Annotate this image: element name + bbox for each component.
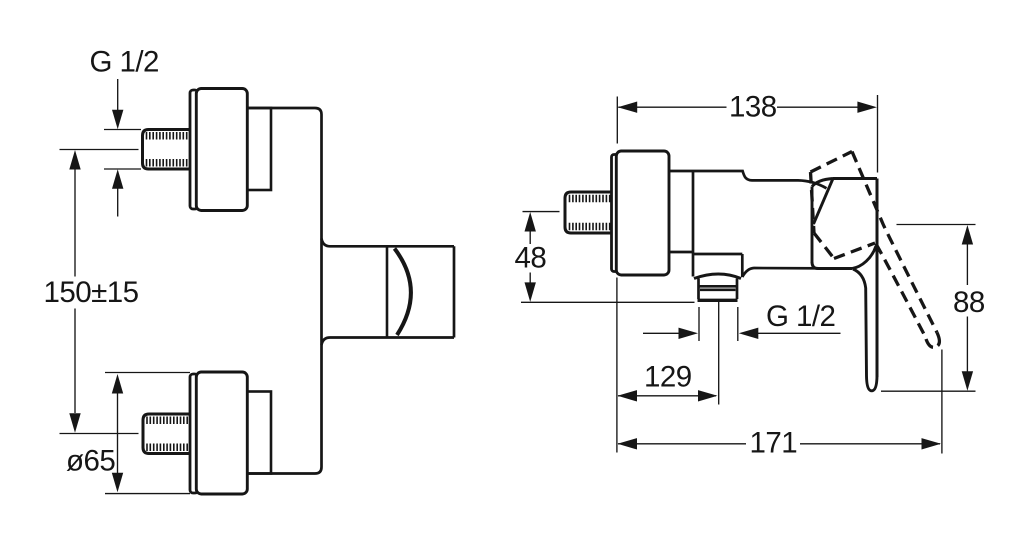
body section divider	[692, 171, 695, 254]
dimension 88	[897, 224, 976, 226]
dashed grip top edge	[811, 152, 853, 173]
svg-text:171: 171	[750, 426, 798, 459]
handle cap left edge	[811, 187, 814, 264]
lever left edge	[853, 269, 867, 376]
valve body top edge	[669, 171, 827, 188]
spout ring line	[386, 246, 389, 337]
dashed lever tip	[926, 333, 939, 348]
body plate bottom (left view)	[246, 392, 271, 474]
leader arrow down to thread top	[117, 79, 119, 110]
handle cap top edge	[833, 177, 877, 180]
escutcheon (side view)	[616, 151, 669, 275]
handle grip face edge (solid diagonal)	[814, 179, 834, 225]
lever rounded tip	[867, 376, 878, 391]
spout neck (left view)	[322, 239, 455, 247]
svg-text:138: 138	[729, 91, 777, 124]
svg-text:88: 88	[953, 286, 985, 319]
threaded inlet top (left view)	[143, 130, 191, 170]
body plate top (left view)	[246, 108, 271, 190]
escutcheon bottom lip (left view)	[190, 374, 198, 493]
spout block left edge	[692, 254, 695, 277]
dashed lever lower line	[876, 244, 926, 338]
inlet centerline bottom	[60, 433, 139, 435]
body bottom edge left of divider	[669, 251, 693, 254]
spout block right edge	[741, 254, 744, 277]
dashed grip bottom-right edge	[834, 243, 875, 259]
handle underside curve to lever	[852, 246, 876, 269]
escutcheon bottom (left view)	[196, 372, 247, 494]
svg-text:G 1/2: G 1/2	[766, 300, 835, 333]
escutcheon top lip (left view)	[190, 90, 198, 209]
inlet centerline top	[60, 149, 139, 151]
dimension 171	[616, 278, 618, 453]
body lower edge to handle	[742, 268, 852, 277]
body bottom edge right of divider	[693, 253, 742, 256]
dimension 48	[523, 211, 560, 213]
escutcheon top (left view)	[196, 89, 247, 211]
svg-text:129: 129	[644, 361, 692, 394]
outlet centerline	[718, 302, 720, 405]
dimension 129	[618, 395, 716, 397]
spout end cap right edge	[453, 246, 456, 337]
handle cap bottom edge	[812, 262, 852, 269]
dimension G 1/2 (outlet)	[698, 307, 700, 341]
dashed grip left edge	[811, 172, 815, 233]
thread top edge extension line	[104, 129, 141, 131]
threaded inlet (side view)	[565, 192, 612, 233]
dimension ø65	[105, 372, 190, 374]
dimension 150±15	[69, 150, 80, 170]
spout crescent arc	[395, 249, 411, 336]
leader arrow up to thread bottom	[112, 169, 123, 189]
dashed lever upper line	[852, 152, 937, 333]
thread bottom edge extension line	[104, 168, 141, 170]
svg-text:150±15: 150±15	[44, 276, 139, 309]
dashed grip bottom-left edge	[814, 233, 834, 259]
dashed handle in raised position	[811, 152, 940, 348]
outlet nozzle	[697, 279, 700, 300]
threaded inlet bottom (left view)	[143, 414, 191, 454]
handle cap top-left corner	[812, 179, 833, 187]
spout shoulder arch	[694, 274, 741, 279]
svg-text:G 1/2: G 1/2	[90, 46, 159, 79]
faucet body (left view)	[246, 108, 322, 474]
dimension 138	[616, 97, 618, 144]
escutcheon lip (side view)	[612, 155, 619, 272]
svg-text:ø65: ø65	[66, 445, 115, 478]
lever right edge	[876, 179, 879, 378]
svg-text:48: 48	[515, 242, 547, 275]
